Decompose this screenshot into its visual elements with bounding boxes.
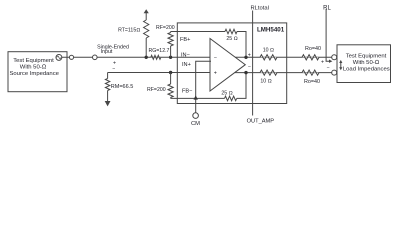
svg-text:RF=200: RF=200 [147, 87, 166, 93]
svg-text:−: − [326, 66, 329, 72]
ground [105, 101, 111, 106]
svg-text:FB−: FB− [182, 88, 192, 94]
resistor 10ohm bottom [260, 70, 277, 75]
svg-text:−: − [112, 66, 115, 72]
svg-text:IN+: IN+ [182, 62, 191, 68]
left test equipment box [8, 52, 67, 92]
arrow terminal of RT [144, 9, 149, 13]
CM port [193, 113, 199, 119]
svg-text:Load Impedances: Load Impedances [343, 67, 390, 73]
svg-text:+: + [214, 71, 217, 77]
resistor 25ohm bottom [225, 96, 237, 101]
right test equipment box [337, 45, 391, 83]
svg-text:Test Equipment: Test Equipment [13, 58, 54, 64]
resistor 25ohm top [225, 29, 237, 34]
junction CM/FB- [194, 95, 198, 99]
pointer RL [326, 9, 329, 61]
pointer RLtotal / OUT_AMP [252, 11, 254, 116]
resistor RG [151, 55, 161, 59]
svg-text:Test Equipment: Test Equipment [346, 54, 387, 60]
output branch wires [235, 57, 332, 72]
label: left box text [9, 58, 59, 77]
junction RT/IN- [145, 56, 148, 59]
connector J2 [93, 55, 98, 60]
connector J1 [69, 55, 73, 59]
svg-text:OUT_AMP: OUT_AMP [247, 119, 275, 125]
svg-text:RT=115Ω: RT=115Ω [118, 27, 140, 33]
svg-text:Ro=40: Ro=40 [305, 46, 321, 52]
load dimension arrow [340, 62, 342, 69]
AC source V1 [56, 54, 62, 60]
svg-text:Ro=40: Ro=40 [304, 79, 320, 85]
svg-text:FB+: FB+ [180, 37, 190, 43]
resistor RF1 [170, 32, 172, 33]
svg-text:RL: RL [323, 5, 331, 11]
wire source to input [62, 56, 211, 58]
junction RG/RF1 [169, 56, 172, 59]
label: right box text [343, 54, 390, 73]
svg-text:RF=200: RF=200 [156, 25, 175, 31]
feedback wire FB- [171, 73, 246, 99]
svg-text:+: + [248, 52, 251, 58]
wire IN+ [108, 72, 211, 74]
resistor Ro2 [302, 70, 319, 75]
resistor RT [145, 38, 147, 57]
svg-text:RG=12.7: RG=12.7 [149, 48, 170, 54]
op-amp U1 [210, 39, 245, 92]
svg-text:Source Impedance: Source Impedance [9, 71, 59, 77]
svg-text:LMH5401: LMH5401 [257, 26, 285, 33]
resistor 10ohm top [260, 55, 277, 60]
IC box LMH5401 [177, 23, 286, 104]
svg-text:10 Ω: 10 Ω [260, 78, 271, 84]
resistor RF2 [170, 73, 172, 85]
junction IN+/RF2 [169, 71, 172, 74]
svg-text:Input: Input [101, 49, 113, 55]
svg-text:−: − [248, 64, 251, 70]
svg-text:With 50-Ω: With 50-Ω [353, 60, 380, 66]
load port circle top [332, 55, 337, 60]
svg-text:RLtotal: RLtotal [251, 6, 269, 12]
CM stub [196, 61, 211, 113]
feedback wire FB+ [171, 32, 246, 58]
svg-text:RM=66.5: RM=66.5 [111, 84, 133, 90]
svg-text:+: + [321, 60, 324, 66]
svg-text:CM: CM [191, 121, 200, 127]
svg-text:25 Ω: 25 Ω [221, 91, 232, 97]
svg-text:IN−: IN− [181, 52, 190, 58]
svg-text:−: − [214, 55, 217, 61]
load port circle bottom [332, 70, 337, 75]
svg-text:With 50-Ω: With 50-Ω [20, 65, 47, 71]
svg-text:25 Ω: 25 Ω [226, 36, 237, 42]
junction OUT+ [244, 56, 247, 59]
resistor RM [107, 73, 109, 79]
svg-text:10 Ω: 10 Ω [263, 48, 274, 54]
resistor Ro1 [302, 55, 319, 60]
label: Single-Ended Input [97, 44, 129, 55]
junction OUT- [244, 71, 247, 74]
